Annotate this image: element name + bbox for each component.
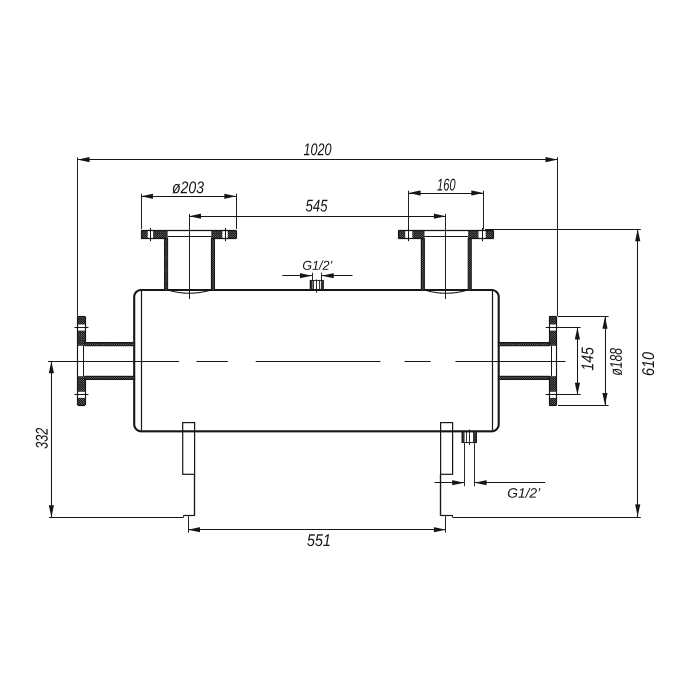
tank shell outline bbox=[134, 290, 499, 431]
right support leg bbox=[441, 423, 453, 518]
shell arc under left top nozzle bbox=[168, 290, 212, 293]
dimension 160 bbox=[409, 179, 484, 230]
left head weld seam bbox=[141, 291, 143, 430]
top G1/2 coupling bbox=[310, 280, 323, 289]
dimension 545 bbox=[189, 200, 446, 299]
tank axis centerline bbox=[48, 361, 566, 363]
dimension 610 bbox=[453, 229, 654, 518]
dimension Ø188 bbox=[558, 317, 622, 406]
dimension 145 bbox=[560, 328, 594, 395]
right side flange bbox=[546, 317, 560, 406]
shell arc under right top nozzle bbox=[425, 290, 469, 293]
dimension Ø203 bbox=[141, 181, 237, 229]
top coupling centerline bbox=[316, 280, 318, 293]
top-right nozzle flange DN80 bbox=[398, 228, 493, 241]
top-right nozzle pipe bbox=[421, 239, 471, 291]
left support leg bbox=[183, 423, 195, 518]
right head weld seam bbox=[492, 291, 494, 430]
dimension 1020 bbox=[78, 143, 558, 316]
top-left nozzle pipe bbox=[164, 239, 214, 291]
dimension 551 bbox=[188, 516, 446, 546]
bottom coupling centerline bbox=[469, 430, 471, 446]
label G1/2 bottom bbox=[435, 443, 546, 498]
right side nozzle pipe bbox=[498, 342, 549, 379]
bottom G1/2 drain coupling bbox=[462, 432, 477, 443]
dimension 332 bbox=[36, 361, 184, 518]
top-left nozzle flange DN80 bbox=[141, 228, 237, 241]
left side nozzle pipe bbox=[85, 342, 135, 379]
left side flange bbox=[75, 317, 89, 406]
label G1/2 top bbox=[282, 260, 352, 280]
